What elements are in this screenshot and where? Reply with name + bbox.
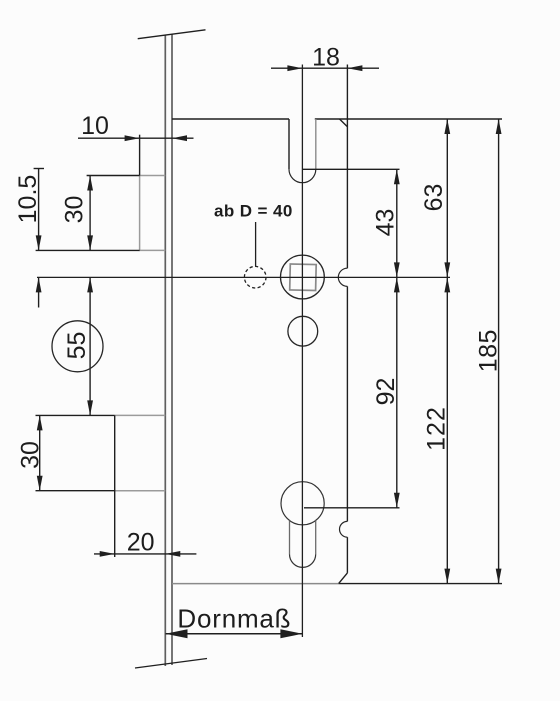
- faceplate bottom break line: [135, 659, 207, 669]
- dimension 10.5 down arrow: [36, 235, 42, 250]
- dimension 63 line: [446, 119, 448, 277]
- dimension Dornmass line: [166, 633, 303, 635]
- cylinder keyway left side: [289, 521, 291, 555]
- dimension 122 arrows: [444, 277, 450, 583]
- dimension 92 line: [396, 277, 398, 507]
- vertical lock axis line: [301, 65, 303, 638]
- dimension 20 arrows: [100, 551, 181, 557]
- svg-text:ab D = 40: ab D = 40: [214, 201, 293, 220]
- cylinder axis extension line: [304, 507, 400, 509]
- dimension 10.5 up arrow: [36, 277, 42, 292]
- reference line y=250: [36, 249, 140, 251]
- small circle below follower: [288, 316, 318, 346]
- svg-text:Dornmaß: Dornmaß: [177, 604, 291, 634]
- dimension 10 line: [78, 137, 194, 139]
- bottom extension line for 122/185: [339, 583, 502, 585]
- U-slot right edge: [315, 119, 317, 169]
- faceplate top break line: [138, 30, 206, 39]
- svg-text:43: 43: [372, 209, 400, 237]
- svg-text:10.5: 10.5: [14, 175, 42, 224]
- dimension Dornmass arrows: [166, 629, 303, 638]
- dimension 10.5 lower shaft: [38, 277, 40, 307]
- svg-text:30: 30: [61, 196, 89, 224]
- deadbolt bottom extension line: [36, 490, 115, 492]
- svg-text:92: 92: [372, 378, 400, 406]
- leader line: [255, 222, 257, 266]
- cylinder keyway bottom arc: [290, 554, 316, 567]
- svg-text:122: 122: [423, 406, 451, 451]
- notch at cylinder: [340, 521, 348, 537]
- dimension 30 top line: [89, 176, 91, 251]
- svg-text:20: 20: [127, 529, 155, 557]
- dimension 10 arrows: [125, 135, 187, 141]
- dimension 18 arrows: [287, 65, 362, 71]
- dimension 30 bottom arrows: [37, 415, 43, 490]
- svg-text:185: 185: [475, 329, 503, 372]
- cylinder hole circle: [281, 482, 324, 525]
- case bottom-right chamfer: [339, 573, 348, 584]
- dimension 55 line: [89, 277, 91, 415]
- U-slot bottom arc: [289, 169, 316, 182]
- svg-text:55: 55: [63, 332, 91, 360]
- dimension 10 extension: [139, 135, 141, 176]
- svg-text:63: 63: [420, 184, 448, 212]
- U-slot left edge: [288, 119, 290, 169]
- dimension 55 circle: [52, 321, 103, 372]
- dimension 30 top extension upper: [87, 175, 140, 177]
- deadbolt top edge (grey): [115, 414, 166, 416]
- dimension 30 top arrows: [87, 176, 93, 251]
- case right edge lower segment: [346, 537, 348, 573]
- deadbolt top extension line: [36, 414, 115, 416]
- dimension 43 arrows: [394, 169, 400, 277]
- case right edge middle segment: [346, 286, 348, 521]
- case bottom edge (grey): [172, 583, 339, 585]
- dimension 55 arrows: [87, 277, 93, 415]
- svg-text:18: 18: [312, 44, 340, 72]
- dimension 63 arrows: [444, 119, 450, 277]
- case top-right chamfer: [340, 119, 348, 127]
- dimension 10.5 upper shaft: [38, 169, 40, 251]
- dimension 10.5 top tick: [34, 168, 44, 170]
- deadbolt bottom edge (grey): [115, 490, 166, 492]
- case right edge upper segment: [346, 127, 348, 268]
- dimension 122 line: [446, 277, 448, 583]
- latch bolt (grey): [140, 176, 166, 251]
- faceplate right line: [171, 34, 173, 665]
- dimension 18 right extension: [346, 65, 348, 128]
- dimension 18 line: [271, 67, 379, 69]
- dimension 43 line: [396, 169, 398, 277]
- case top edge left of slot: [172, 118, 289, 120]
- deadbolt left edge + extension to 20 dim: [114, 415, 116, 557]
- cylinder keyway right side: [315, 521, 317, 555]
- svg-text:10: 10: [81, 112, 109, 140]
- horizontal follower axis line: [37, 276, 450, 278]
- case top edge right of slot + extension line for 63/185: [315, 118, 502, 120]
- follower circle: [281, 255, 325, 299]
- slot bottom extension line for 43: [302, 168, 399, 170]
- dimension 20 line: [94, 553, 196, 555]
- dashed circle ab D = 40: [244, 266, 266, 288]
- dimension 30 bottom line: [39, 415, 41, 490]
- svg-text:30: 30: [17, 441, 45, 469]
- notch at follower axis: [338, 268, 347, 286]
- faceplate left line: [164, 35, 166, 666]
- follower square hole: [290, 264, 316, 290]
- dimension 185 arrows: [496, 119, 502, 584]
- dimension 185 line: [498, 119, 500, 584]
- dimension 92 arrows: [394, 277, 400, 507]
